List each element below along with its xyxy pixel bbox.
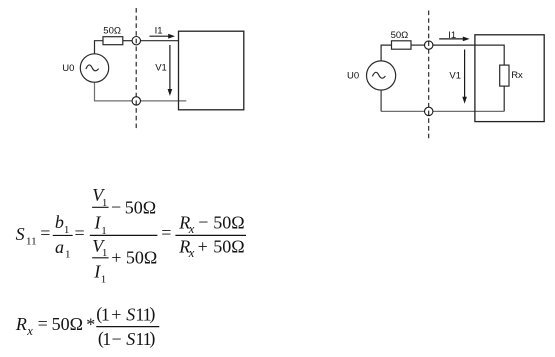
svg-text:50Ω: 50Ω <box>125 197 156 217</box>
svg-text:*: * <box>86 315 95 335</box>
resistor Rx <box>500 65 509 86</box>
svg-text:I1: I1 <box>448 30 456 41</box>
svg-text:1: 1 <box>102 329 111 349</box>
svg-text:): ) <box>149 328 155 349</box>
wire: resistor to left top node <box>123 40 132 42</box>
voltage arrow V1 (left) <box>168 45 173 96</box>
reference plane (right dashed line) <box>428 11 430 139</box>
svg-text:+: + <box>198 237 208 257</box>
wire: left top node to DUT box <box>141 40 179 42</box>
current arrow I1 (right) <box>439 37 469 42</box>
current arrow I1 (left) <box>150 34 176 39</box>
svg-text:1: 1 <box>101 273 107 285</box>
svg-text:1: 1 <box>64 224 70 236</box>
wire: bottom rail to Rx branch <box>381 110 504 112</box>
DUT box (left) <box>179 31 244 110</box>
svg-text:S: S <box>126 329 135 349</box>
svg-text:+: + <box>111 304 121 324</box>
svg-text:V1: V1 <box>155 63 167 74</box>
formula Rx = 50 * (1+S11)/(1-S11) <box>15 304 159 350</box>
svg-text:x: x <box>188 222 195 236</box>
reference plane (left dashed line) <box>135 8 137 129</box>
node: right bottom port <box>425 107 433 115</box>
svg-text:=: = <box>40 223 50 243</box>
resistor 50Ohm (left) <box>103 37 123 45</box>
svg-text:a: a <box>55 237 64 257</box>
svg-text:−: − <box>111 197 121 217</box>
svg-text:1: 1 <box>65 249 71 261</box>
svg-text:50Ω: 50Ω <box>213 237 244 257</box>
svg-text:50Ω: 50Ω <box>213 212 244 232</box>
node: left bottom port <box>132 97 140 105</box>
svg-text:V1: V1 <box>449 70 461 81</box>
svg-text:Rx: Rx <box>511 70 523 81</box>
svg-text:x: x <box>188 246 195 260</box>
voltage source U0 (left) <box>80 54 108 82</box>
svg-text:1: 1 <box>102 247 108 259</box>
svg-text:50Ω: 50Ω <box>391 30 409 41</box>
resistor 50Ohm (right) <box>392 41 412 49</box>
svg-text:−: − <box>198 212 208 232</box>
svg-text:50Ω: 50Ω <box>126 248 157 268</box>
svg-text:=: = <box>38 314 48 334</box>
node: left top port <box>132 37 140 45</box>
svg-text:x: x <box>26 324 33 338</box>
wire: resistor to right top node <box>411 44 425 46</box>
wire: right top node to Rx branch <box>433 45 504 65</box>
formula S11 = b1/a1 = (V1/I1 - 50)/(V1/I1 + 50) = (Rx-50)/(Rx+50) <box>16 185 246 285</box>
svg-text:50Ω: 50Ω <box>103 26 121 37</box>
svg-text:I1: I1 <box>155 25 163 36</box>
svg-text:U0: U0 <box>347 71 359 82</box>
voltage source U0 (right) <box>367 61 396 90</box>
wire: U0 right bottom down to bottom rail <box>380 90 382 111</box>
svg-text:1: 1 <box>101 304 110 324</box>
wire: U0 left top to resistor <box>95 41 104 54</box>
wire: U0 left bottom to bottom node to DUT box <box>95 82 187 101</box>
svg-text:): ) <box>149 304 155 325</box>
voltage arrow V1 (right) <box>462 50 467 104</box>
svg-text:S: S <box>126 304 135 324</box>
svg-text:50Ω: 50Ω <box>52 314 83 334</box>
wire: U0 right top to resistor <box>381 45 391 61</box>
svg-text:S: S <box>16 224 25 244</box>
svg-text:1: 1 <box>102 197 108 209</box>
svg-text:=: = <box>161 223 171 243</box>
wire: Rx bottom to bottom wire <box>503 86 505 111</box>
svg-text:11: 11 <box>26 235 37 247</box>
svg-text:+: + <box>111 248 121 268</box>
svg-text:R: R <box>15 314 27 334</box>
node: right top port <box>425 41 433 49</box>
svg-text:=: = <box>75 223 85 243</box>
svg-text:b: b <box>55 212 64 232</box>
enclosure box (right) <box>475 35 544 122</box>
svg-text:−: − <box>112 329 122 349</box>
svg-text:U0: U0 <box>62 63 74 74</box>
